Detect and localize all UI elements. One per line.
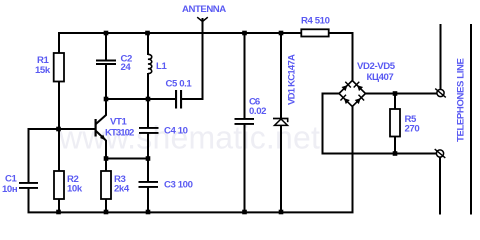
- svg-text:ANTENNA: ANTENNA: [182, 4, 226, 15]
- svg-text:VD2-VD5: VD2-VD5: [357, 61, 396, 72]
- svg-text:R4 510: R4 510: [301, 16, 330, 27]
- svg-text:TELEPHONES LINE: TELEPHONES LINE: [456, 57, 467, 142]
- svg-text:0.02: 0.02: [249, 106, 266, 117]
- svg-text:КЦ407: КЦ407: [367, 72, 394, 83]
- svg-text:C3 100: C3 100: [164, 180, 193, 191]
- svg-text:KT3102: KT3102: [105, 128, 134, 139]
- svg-text:L1: L1: [156, 61, 167, 72]
- svg-text:VT1: VT1: [110, 117, 127, 128]
- svg-text:C5 0.1: C5 0.1: [166, 79, 193, 90]
- svg-text:270: 270: [405, 124, 420, 135]
- svg-text:10н: 10н: [2, 184, 18, 195]
- svg-text:VD1 KC147A: VD1 KC147A: [287, 54, 298, 105]
- svg-text:C1: C1: [5, 174, 18, 185]
- svg-text:C4 10: C4 10: [164, 126, 188, 137]
- svg-text:2k4: 2k4: [114, 184, 130, 195]
- svg-text:24: 24: [121, 62, 132, 73]
- svg-text:15k: 15k: [35, 65, 51, 76]
- svg-text:10k: 10k: [67, 184, 83, 195]
